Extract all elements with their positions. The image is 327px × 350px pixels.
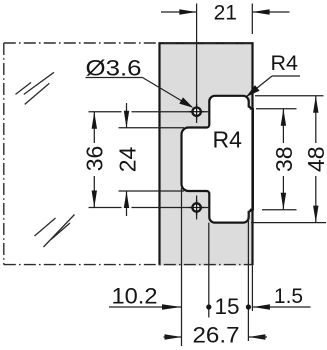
leader arrow to hole <box>179 97 193 107</box>
thin extension / dimension lines <box>86 4 327 347</box>
glass hatch lower <box>35 215 75 248</box>
dim 36 top arrow <box>92 112 97 129</box>
1.5 dim line <box>253 306 311 308</box>
dim 38 top arrow <box>281 109 286 126</box>
dim 48 bottom arrow <box>313 206 318 223</box>
svg-text:1.5: 1.5 <box>274 285 303 308</box>
hole 2 <box>192 203 200 211</box>
dim 1.5 arrow <box>253 304 270 309</box>
svg-text:21: 21 <box>214 2 237 25</box>
frame left edge <box>158 43 160 265</box>
mounting plate / frame profile <box>160 43 253 265</box>
hole2 vertical centerline <box>196 196 198 220</box>
hole2 horizontal centerline / 36 bottom ext (gap at 24 shaft) <box>89 207 122 209</box>
glass door dash-dot outline: left <box>3 43 5 265</box>
svg-text:26.7: 26.7 <box>193 323 240 348</box>
dim 38 bottom arrow <box>281 193 286 210</box>
dim 21 left arrow <box>179 9 196 14</box>
hole1 horizontal centerline / 36 top ext (gap at 24 shaft) <box>89 111 122 113</box>
svg-text:36: 36 <box>81 146 107 172</box>
dim 26.7 right arrow <box>248 334 265 339</box>
svg-text:38: 38 <box>271 146 297 172</box>
glass hatch upper <box>16 72 55 104</box>
frame top edge <box>158 42 253 44</box>
glass door dash-dot outline: top <box>4 42 252 44</box>
dim 21 right arrow <box>253 9 270 14</box>
38 dim line segments <box>282 109 284 143</box>
frame-edge extension down <box>251 265 253 311</box>
svg-text:24: 24 <box>115 147 141 173</box>
dim 26.7 left arrow <box>165 334 182 339</box>
24 dim shafts (outside arrows) <box>126 103 128 128</box>
dim 26.7 left tail <box>164 336 182 338</box>
bump-left extension down <box>181 188 183 346</box>
svg-text:15: 15 <box>214 294 239 319</box>
24 top extension <box>119 127 185 129</box>
hole 1 <box>192 108 200 116</box>
dim 26.7 right tail <box>249 336 267 338</box>
38 bottom extension <box>262 209 297 211</box>
24 bottom extension <box>119 190 185 192</box>
hinge-arm cutout <box>182 96 253 223</box>
svg-text:R4: R4 <box>213 127 243 153</box>
36 dim line segments <box>93 112 95 143</box>
10.2 dim line <box>109 306 181 308</box>
ledge extension down <box>247 211 249 341</box>
svg-text:Ø3.6: Ø3.6 <box>86 56 142 81</box>
frame right edge <box>251 43 253 265</box>
R4 underline + leader <box>272 75 300 77</box>
dim 48 top arrow <box>313 96 318 113</box>
leader arrow to R4 corner <box>246 85 260 97</box>
dim 10.2 arrow <box>162 304 181 309</box>
Ø3.6 underline + leader <box>86 77 143 79</box>
48 bottom extension <box>251 222 326 224</box>
dim 24 top arrow <box>124 111 129 128</box>
21 dim tails <box>161 11 196 13</box>
48 top extension <box>255 95 324 97</box>
svg-text:10.2: 10.2 <box>112 284 158 309</box>
dim 24 bottom arrow <box>124 191 129 208</box>
15 dim dots <box>206 304 211 309</box>
svg-text:48: 48 <box>303 146 327 172</box>
38 top extension <box>256 108 297 110</box>
tall-left extension down <box>208 223 210 318</box>
21 right extension <box>251 4 253 35</box>
hole1 centerline vertical (21 ext) <box>196 4 198 124</box>
48 dim line segments <box>315 96 317 143</box>
dim 36 bottom arrow <box>92 191 97 208</box>
glass door dash-dot outline: bottom <box>4 264 252 266</box>
svg-text:R4: R4 <box>271 51 299 75</box>
